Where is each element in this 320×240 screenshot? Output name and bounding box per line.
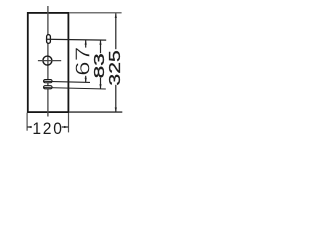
dim 120 arrow right [64,126,68,128]
dim 67 line lower segment [85,76,87,82]
bottom left extension vertical [26,113,28,131]
circle horizontal centreline [38,60,61,62]
dim 83 line lower segment [100,78,102,89]
dim 67 arrow up [85,40,87,44]
dim 67 line upper segment [85,40,87,48]
dim 83 line upper segment [100,40,102,53]
dim 325 arrow up [115,14,117,18]
dim 325 line lower segment [115,85,117,112]
svg-text:120: 120 [32,119,63,138]
slot B extension line [43,88,106,90]
dim 83 arrow down [99,84,101,88]
dim 83 arrow up [99,40,101,44]
dim 67 arrow down [85,78,87,82]
dim 120 right dash [62,126,69,128]
slot A extension line [43,81,90,82]
plate outline [28,13,69,112]
bottom slot A [44,80,53,83]
top slot centre extension line [46,38,106,41]
dim 120 arrow left [27,126,31,128]
dim 120 left dash [27,126,31,128]
svg-text:325: 325 [106,50,124,85]
bottom slot B [44,86,53,89]
top extension line [69,12,121,14]
top slot [47,35,51,44]
dim 325 line upper segment [115,13,117,49]
bottom extension line [69,111,122,113]
dim 325 arrow down [115,108,117,112]
circle hole [43,56,52,65]
bottom right extension vertical [68,113,70,133]
centerline [47,6,49,117]
svg-text:67: 67 [71,47,94,76]
